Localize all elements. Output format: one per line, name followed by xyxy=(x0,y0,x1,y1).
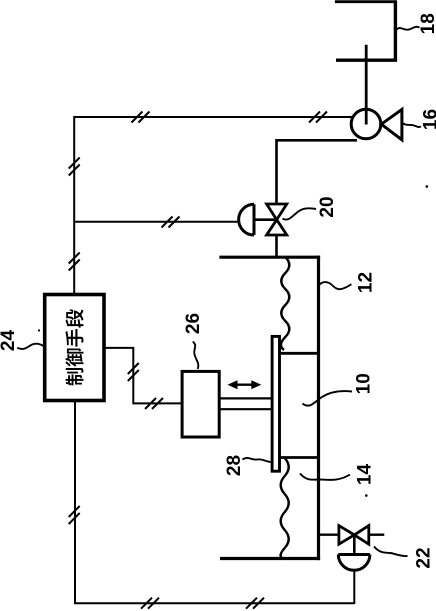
tank bottom edge xyxy=(220,557,320,560)
hash on below-box wire xyxy=(69,506,80,524)
reservoir 18 bottom edge xyxy=(336,59,397,62)
svg-text:10: 10 xyxy=(353,373,374,394)
wire left vertical xyxy=(73,116,75,296)
leader to 12 xyxy=(319,282,352,289)
pipe pump-to-valve20 xyxy=(277,140,358,204)
reservoir 18 top edge xyxy=(335,0,396,3)
svg-text:26: 26 xyxy=(183,313,204,334)
control box 24 xyxy=(45,295,104,401)
svg-text:16: 16 xyxy=(420,109,436,130)
leader to 20 xyxy=(283,208,317,219)
svg-text:24: 24 xyxy=(0,330,19,352)
leader to 22 xyxy=(374,547,408,557)
svg-text:12: 12 xyxy=(356,272,377,293)
pipe valve20-to-tank xyxy=(275,235,278,259)
valve 22 right stub xyxy=(369,534,385,536)
speck dot right edge xyxy=(426,185,429,188)
reservoir 18 right wall xyxy=(394,0,397,60)
pump 16 triangle xyxy=(381,109,402,139)
tank top edge xyxy=(219,256,320,259)
stage 10 top edge xyxy=(280,352,321,355)
hash on middle wire xyxy=(162,217,180,228)
valve 20 stem xyxy=(254,218,277,221)
svg-text:14: 14 xyxy=(355,464,376,486)
valve 22 left stub xyxy=(319,534,340,536)
pipe reservoir18-to-pump xyxy=(365,45,368,124)
plate 28 xyxy=(272,336,279,471)
motion arrow near 26 xyxy=(232,384,257,386)
wire control-to-pump (top) xyxy=(74,116,352,118)
valve 20 actuator dome xyxy=(239,204,254,235)
pump 16 pipe inside xyxy=(365,108,368,125)
leader to 10 xyxy=(303,391,353,406)
hash on bottom wire (right) xyxy=(246,598,264,609)
liquid wavy line chamber 14 xyxy=(281,458,289,559)
leader to 28 xyxy=(243,458,271,462)
hash on left vertical wire (lower) xyxy=(69,253,80,271)
liquid wavy line chamber 12 xyxy=(281,257,289,350)
hash on wire to 26 vertical xyxy=(128,363,139,381)
rod 26-to-plate xyxy=(219,398,272,409)
control box text 制御手段 xyxy=(65,309,83,385)
leader to 18 xyxy=(397,27,420,30)
valve 20 top triangle xyxy=(267,204,287,220)
leader to 24 xyxy=(17,344,43,349)
wire control-to-valve22 (bottom) xyxy=(74,401,354,605)
hash on left vertical wire (upper) xyxy=(69,158,80,176)
valve 22 right triangle xyxy=(354,526,369,545)
actuator box 26 xyxy=(182,371,219,437)
valve 20 bottom triangle xyxy=(267,220,287,235)
pump 16 circle xyxy=(351,109,381,139)
valve 22 stem xyxy=(353,535,356,555)
stage 10 bottom edge xyxy=(280,456,321,459)
speck dot near 14 xyxy=(365,494,368,497)
svg-text:28: 28 xyxy=(224,455,245,476)
svg-text:18: 18 xyxy=(418,13,436,34)
speck dot near 24 xyxy=(38,329,40,331)
wire control-to-valve20 (middle) xyxy=(74,221,240,223)
hash on wire to 26 horizontal xyxy=(145,398,163,409)
hash on top wire (right) xyxy=(309,112,327,123)
tank right wall xyxy=(317,256,320,560)
valve 22 left triangle xyxy=(339,526,354,545)
hash on top wire (left) xyxy=(132,112,150,123)
svg-text:22: 22 xyxy=(413,547,434,568)
hash on bottom wire (left) xyxy=(141,598,159,609)
valve 22 actuator dome xyxy=(338,555,370,571)
leader to 16 xyxy=(403,123,422,127)
leader to 26 xyxy=(193,342,199,370)
wire control-to-actuator26 xyxy=(104,348,183,404)
svg-text:20: 20 xyxy=(317,196,338,217)
leader to 14 xyxy=(300,474,350,480)
